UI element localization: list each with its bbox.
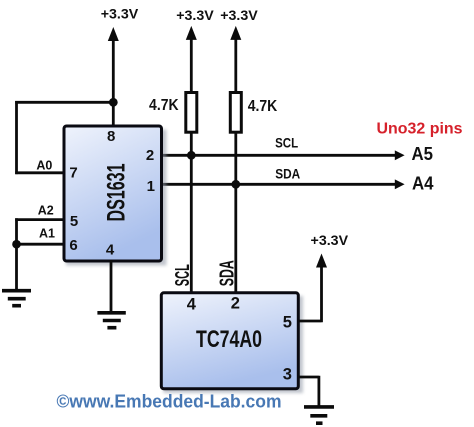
junction SDA node at R2 [231,180,240,189]
svg-text:A4: A4 [412,174,434,194]
svg-text:2: 2 [231,295,240,313]
svg-text:3: 3 [283,366,292,384]
arrowhead SDA to A4 [395,179,405,189]
IC U2 TC74A0 body [161,293,298,389]
power arrow symbol (R2 pull-up) [230,26,241,40]
svg-text:1: 1 [147,178,155,195]
wire left vertical down to A0 [15,101,18,174]
power arrow symbol (R1 pull-up) [186,26,197,40]
svg-text:Uno32 pins: Uno32 pins [377,121,463,138]
wire SCL bus DS1631 pin 2 to A5 [161,154,396,157]
wire R1 bottom down to TC74A0 pin 4 (SCL vertical) [190,132,193,293]
svg-text:+3.3V: +3.3V [176,7,214,23]
junction A1 ground node [12,240,21,249]
IC U1 DS1631 body [64,126,162,261]
power arrow symbol (DS1631 VDD) [108,27,119,41]
svg-text:4: 4 [106,241,115,258]
resistor R2 4.7K (SDA pull-up) [230,93,241,133]
wire U2 pin 5 to VDD arrow [299,266,322,323]
svg-text:A5: A5 [411,144,433,164]
wire VDD arrow to DS1631 pin 8 [112,39,115,127]
wire R2 top to power arrow [234,38,237,92]
ground symbol (U2 pin 3) [304,407,334,423]
wire U2 pin 3 to ground [299,376,319,406]
wire SDA bus DS1631 pin 1 to A4 [161,183,396,186]
wire U1 pin 4 to ground [110,260,113,313]
svg-text:7: 7 [69,164,77,181]
ground symbol (U1 pin 4) [97,313,125,328]
wire A0 stub to DS1631 pin 7 [15,171,64,174]
svg-text:DS1631: DS1631 [103,163,131,221]
wire A2/A1 vertical down to ground [15,218,18,290]
svg-text:SCL: SCL [275,135,298,151]
wire A2 stub to DS1631 pin 5 [15,218,64,221]
svg-text:SDA: SDA [215,260,238,286]
wire top horizontal A0 tie to VDD [15,101,113,104]
svg-text:A0: A0 [36,158,52,172]
svg-text:+3.3V: +3.3V [101,5,139,21]
svg-text:8: 8 [107,128,115,145]
svg-text:TC74A0: TC74A0 [196,326,262,353]
svg-text:A1: A1 [39,227,55,241]
IC U2 shadow [164,296,304,393]
wire R1 top to power arrow [190,38,193,92]
svg-text:+3.3V: +3.3V [311,232,349,248]
svg-text:2: 2 [146,147,154,164]
svg-text:5: 5 [70,213,78,230]
wire R2 bottom down to TC74A0 pin 2 (SDA vertical) [234,132,237,293]
svg-text:+3.3V: +3.3V [220,7,258,23]
wire A1 stub to DS1631 pin 6 [15,243,64,246]
ground symbol (A1/A2) [2,291,31,306]
op chip U1 shadow [66,130,167,266]
arrowhead SCL to A5 [395,150,405,160]
svg-text:4.7K: 4.7K [149,97,179,114]
resistor R1 4.7K (SCL pull-up) [186,93,197,133]
svg-text:SDA: SDA [275,166,300,182]
junction VDD/A0 node [109,98,118,107]
svg-text:5: 5 [283,313,292,331]
svg-text:4: 4 [187,296,197,314]
power arrow symbol (TC74A0 VDD) [316,254,327,268]
svg-text:©www.Embedded-Lab.com: ©www.Embedded-Lab.com [57,391,282,412]
junction SCL node at R1 [187,151,196,160]
svg-text:A2: A2 [38,203,54,217]
svg-text:4.7K: 4.7K [248,98,278,115]
svg-text:6: 6 [69,237,77,254]
svg-text:SCL: SCL [172,264,194,286]
